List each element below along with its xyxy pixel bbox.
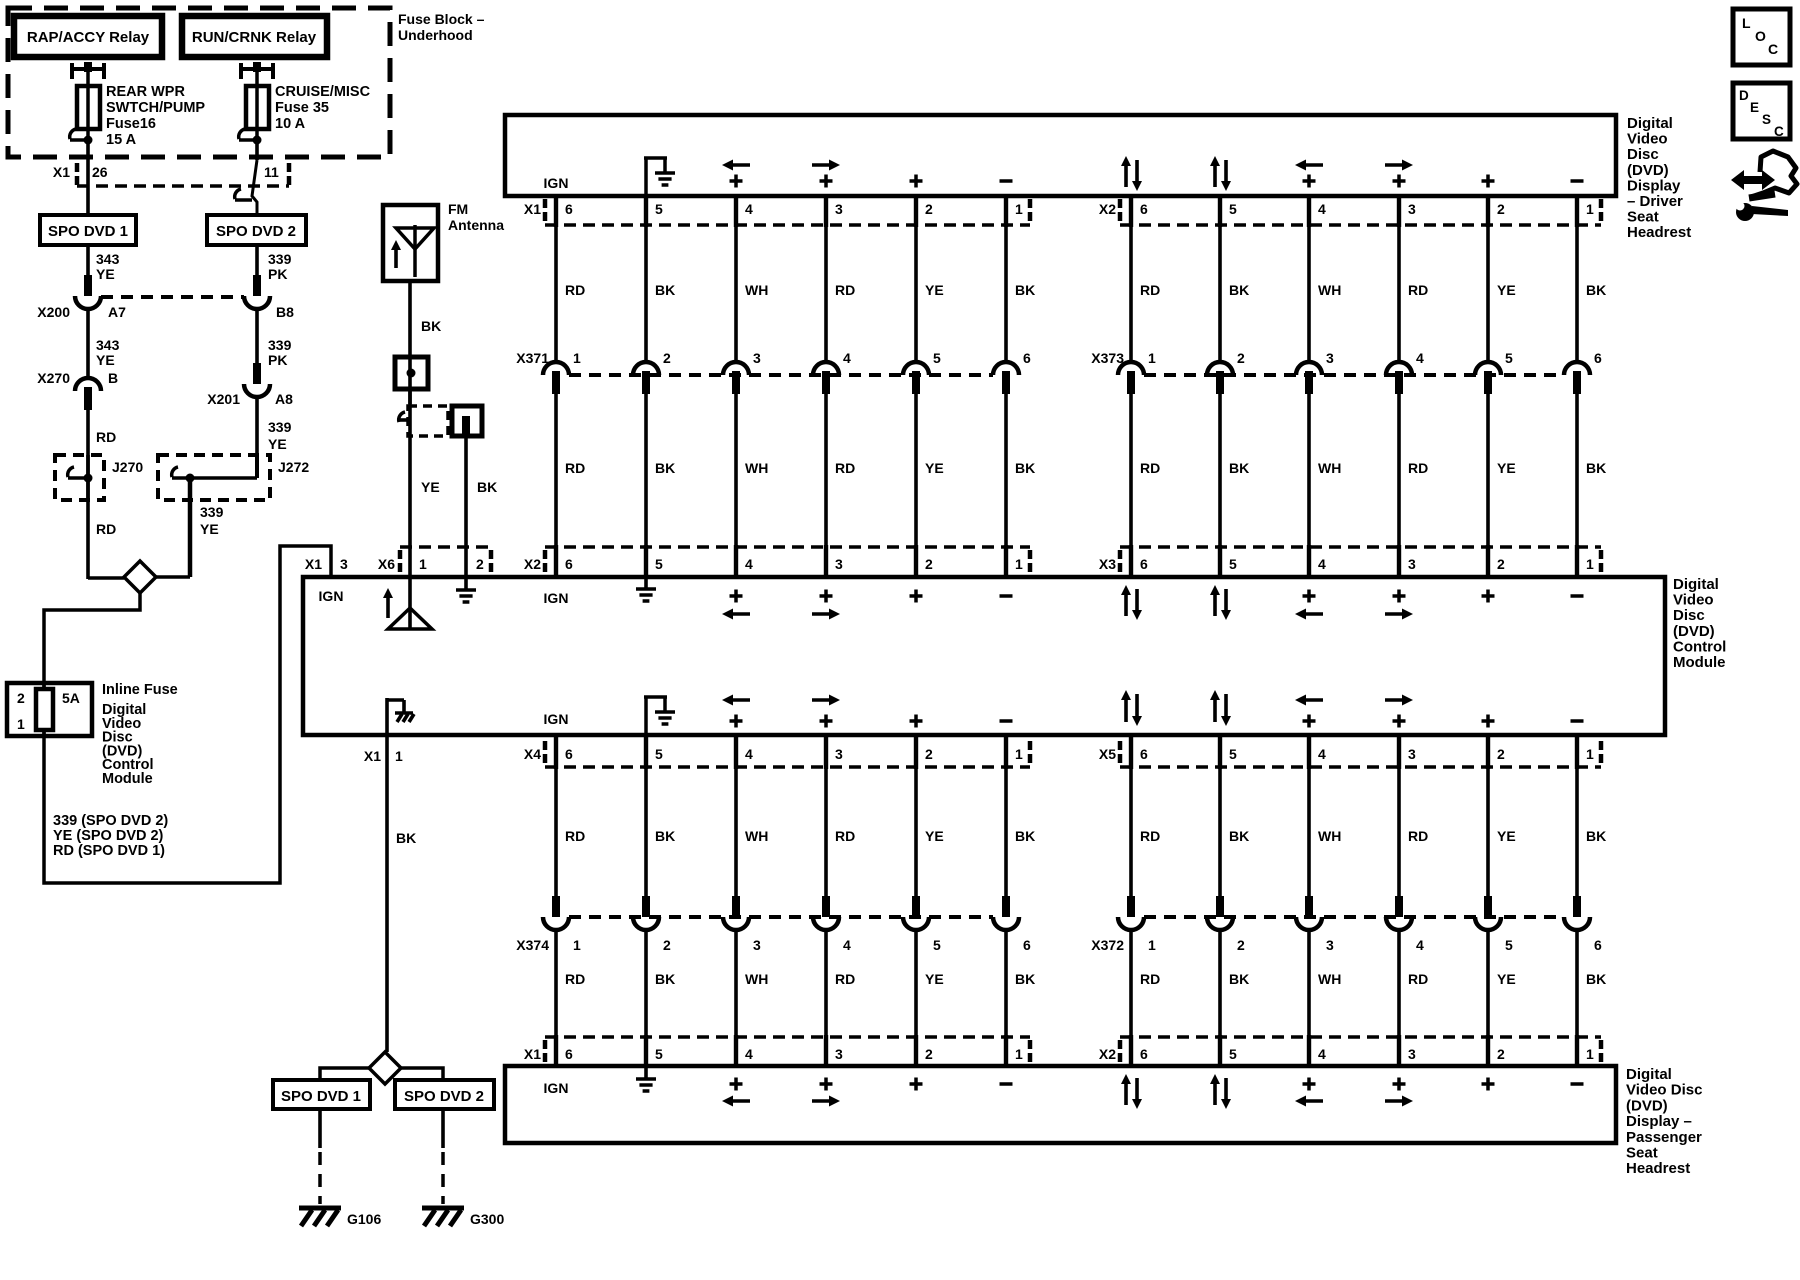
svg-text:S: S xyxy=(1762,112,1771,127)
svg-text:X1: X1 xyxy=(364,748,381,764)
svg-text:RD: RD xyxy=(96,429,116,445)
svg-text:RD: RD xyxy=(96,521,116,537)
svg-text:4: 4 xyxy=(745,201,753,217)
svg-text:6: 6 xyxy=(565,556,573,572)
svg-text:CRUISE/MISC: CRUISE/MISC xyxy=(275,84,371,100)
svg-text:A7: A7 xyxy=(108,304,126,320)
svg-text:3: 3 xyxy=(835,556,843,572)
svg-text:IGN: IGN xyxy=(544,711,569,727)
svg-text:339 (SPO DVD 2): 339 (SPO DVD 2) xyxy=(53,813,168,829)
svg-text:4: 4 xyxy=(843,350,851,366)
svg-text:A8: A8 xyxy=(275,391,293,407)
svg-text:RAP/ACCY Relay: RAP/ACCY Relay xyxy=(27,29,150,46)
svg-text:PK: PK xyxy=(268,352,287,368)
svg-text:Video: Video xyxy=(1627,131,1668,148)
svg-text:Disc: Disc xyxy=(1627,146,1659,163)
svg-text:2: 2 xyxy=(1497,746,1505,762)
svg-text:X1: X1 xyxy=(524,201,541,217)
svg-text:RD: RD xyxy=(565,828,585,844)
svg-text:E: E xyxy=(1750,100,1759,115)
svg-text:5: 5 xyxy=(655,201,663,217)
svg-text:3: 3 xyxy=(340,556,348,572)
svg-text:1: 1 xyxy=(573,937,581,953)
svg-text:6: 6 xyxy=(1140,556,1148,572)
svg-text:5: 5 xyxy=(933,937,941,953)
svg-text:4: 4 xyxy=(1416,937,1424,953)
svg-text:2: 2 xyxy=(1237,350,1245,366)
svg-text:1: 1 xyxy=(573,350,581,366)
svg-text:SPO DVD 2: SPO DVD 2 xyxy=(216,223,296,240)
svg-text:BK: BK xyxy=(655,971,675,987)
svg-text:RD: RD xyxy=(1140,282,1160,298)
svg-text:Passenger: Passenger xyxy=(1626,1129,1702,1146)
svg-text:(DVD): (DVD) xyxy=(1673,623,1715,640)
svg-text:YE: YE xyxy=(925,828,944,844)
svg-text:Headrest: Headrest xyxy=(1627,224,1691,241)
svg-text:Inline Fuse: Inline Fuse xyxy=(102,682,178,698)
svg-text:1: 1 xyxy=(1586,1046,1594,1062)
svg-text:6: 6 xyxy=(565,201,573,217)
svg-text:(DVD): (DVD) xyxy=(1627,162,1669,179)
svg-text:RD: RD xyxy=(1408,460,1428,476)
svg-text:6: 6 xyxy=(1023,937,1031,953)
svg-text:Fuse Block –: Fuse Block – xyxy=(398,11,485,27)
svg-text:WH: WH xyxy=(745,282,768,298)
svg-text:15 A: 15 A xyxy=(106,132,137,148)
svg-text:RD: RD xyxy=(835,828,855,844)
svg-text:2: 2 xyxy=(925,746,933,762)
svg-text:4: 4 xyxy=(843,937,851,953)
svg-text:3: 3 xyxy=(1408,1046,1416,1062)
svg-text:(DVD): (DVD) xyxy=(1626,1097,1668,1114)
svg-text:WH: WH xyxy=(1318,460,1341,476)
svg-text:X1: X1 xyxy=(524,1046,541,1062)
svg-text:B8: B8 xyxy=(276,304,294,320)
svg-text:RD: RD xyxy=(565,282,585,298)
svg-text:3: 3 xyxy=(835,746,843,762)
svg-text:5: 5 xyxy=(1229,746,1237,762)
svg-text:4: 4 xyxy=(1318,201,1326,217)
svg-text:YE: YE xyxy=(268,436,287,452)
svg-text:6: 6 xyxy=(565,746,573,762)
svg-text:4: 4 xyxy=(745,556,753,572)
svg-text:BK: BK xyxy=(396,830,416,846)
svg-text:BK: BK xyxy=(1229,828,1249,844)
svg-text:X373: X373 xyxy=(1091,350,1124,366)
svg-text:SPO DVD 1: SPO DVD 1 xyxy=(48,223,128,240)
svg-text:5: 5 xyxy=(933,350,941,366)
svg-text:3: 3 xyxy=(1326,350,1334,366)
svg-text:4: 4 xyxy=(745,746,753,762)
svg-text:YE: YE xyxy=(96,266,115,282)
svg-text:RD: RD xyxy=(565,460,585,476)
svg-text:5: 5 xyxy=(1229,556,1237,572)
svg-text:3: 3 xyxy=(1408,556,1416,572)
svg-text:FM: FM xyxy=(448,201,468,217)
svg-text:2: 2 xyxy=(663,937,671,953)
svg-text:YE: YE xyxy=(1497,971,1516,987)
svg-text:WH: WH xyxy=(1318,282,1341,298)
svg-text:Headrest: Headrest xyxy=(1626,1160,1690,1177)
svg-text:X1: X1 xyxy=(53,164,70,180)
svg-text:REAR WPR: REAR WPR xyxy=(106,84,185,100)
svg-text:YE: YE xyxy=(1497,282,1516,298)
svg-text:339: 339 xyxy=(200,504,224,520)
svg-text:4: 4 xyxy=(1318,746,1326,762)
svg-text:J272: J272 xyxy=(278,459,309,475)
svg-text:6: 6 xyxy=(1140,746,1148,762)
svg-text:6: 6 xyxy=(1594,937,1602,953)
svg-text:WH: WH xyxy=(745,828,768,844)
svg-text:5: 5 xyxy=(655,1046,663,1062)
svg-text:6: 6 xyxy=(1140,1046,1148,1062)
svg-text:YE: YE xyxy=(925,971,944,987)
svg-text:YE: YE xyxy=(421,479,440,495)
svg-text:IGN: IGN xyxy=(319,588,344,604)
svg-text:2: 2 xyxy=(925,556,933,572)
svg-text:X5: X5 xyxy=(1099,746,1116,762)
svg-text:YE: YE xyxy=(1497,828,1516,844)
svg-text:6: 6 xyxy=(565,1046,573,1062)
svg-text:– Driver: – Driver xyxy=(1627,193,1683,210)
svg-text:BK: BK xyxy=(1586,460,1606,476)
svg-text:Seat: Seat xyxy=(1627,209,1659,226)
svg-text:YE (SPO DVD 2): YE (SPO DVD 2) xyxy=(53,828,164,844)
svg-text:1: 1 xyxy=(1148,350,1156,366)
svg-text:X2: X2 xyxy=(1099,201,1116,217)
svg-text:RD: RD xyxy=(1140,460,1160,476)
svg-text:BK: BK xyxy=(655,460,675,476)
svg-text:X200: X200 xyxy=(37,304,70,320)
svg-text:X1: X1 xyxy=(305,556,322,572)
svg-text:YE: YE xyxy=(96,352,115,368)
svg-text:5: 5 xyxy=(1505,350,1513,366)
svg-text:Display –: Display – xyxy=(1626,1113,1692,1130)
svg-text:5: 5 xyxy=(655,556,663,572)
svg-text:339: 339 xyxy=(268,251,292,267)
svg-text:X270: X270 xyxy=(37,370,70,386)
svg-text:Display: Display xyxy=(1627,177,1681,194)
svg-text:Fuse 35: Fuse 35 xyxy=(275,100,329,116)
svg-text:X4: X4 xyxy=(524,746,541,762)
svg-text:O: O xyxy=(1755,28,1766,44)
svg-text:1: 1 xyxy=(419,556,427,572)
svg-text:Module: Module xyxy=(102,771,153,787)
svg-text:5: 5 xyxy=(1229,1046,1237,1062)
svg-text:SWTCH/PUMP: SWTCH/PUMP xyxy=(106,100,205,116)
svg-text:2: 2 xyxy=(476,556,484,572)
svg-text:X2: X2 xyxy=(524,556,541,572)
svg-text:PK: PK xyxy=(268,266,287,282)
svg-text:Underhood: Underhood xyxy=(398,27,473,43)
svg-text:RD: RD xyxy=(835,460,855,476)
svg-text:3: 3 xyxy=(753,350,761,366)
svg-text:6: 6 xyxy=(1023,350,1031,366)
svg-text:BK: BK xyxy=(655,282,675,298)
svg-text:1: 1 xyxy=(1586,556,1594,572)
svg-text:YE: YE xyxy=(925,282,944,298)
svg-text:3: 3 xyxy=(835,1046,843,1062)
svg-text:339: 339 xyxy=(268,419,292,435)
svg-text:2: 2 xyxy=(925,201,933,217)
svg-text:3: 3 xyxy=(753,937,761,953)
svg-text:Digital: Digital xyxy=(1626,1066,1672,1083)
svg-text:RD: RD xyxy=(1140,971,1160,987)
svg-text:WH: WH xyxy=(745,460,768,476)
svg-text:10 A: 10 A xyxy=(275,116,306,132)
svg-text:Disc: Disc xyxy=(1673,607,1705,624)
svg-text:2: 2 xyxy=(1497,556,1505,572)
svg-text:4: 4 xyxy=(1416,350,1424,366)
svg-text:YE: YE xyxy=(925,460,944,476)
svg-text:WH: WH xyxy=(1318,828,1341,844)
svg-text:Video Disc: Video Disc xyxy=(1626,1082,1702,1099)
svg-text:X371: X371 xyxy=(516,350,549,366)
svg-text:C: C xyxy=(1768,41,1778,57)
svg-text:RD: RD xyxy=(565,971,585,987)
svg-text:Digital: Digital xyxy=(1673,576,1719,593)
svg-text:Fuse16: Fuse16 xyxy=(106,116,156,132)
svg-text:YE: YE xyxy=(1497,460,1516,476)
svg-text:X374: X374 xyxy=(516,937,549,953)
svg-text:2: 2 xyxy=(1497,1046,1505,1062)
svg-text:5A: 5A xyxy=(62,690,80,706)
svg-text:1: 1 xyxy=(1015,556,1023,572)
svg-text:1: 1 xyxy=(1586,746,1594,762)
svg-text:343: 343 xyxy=(96,251,120,267)
svg-text:RD: RD xyxy=(1408,971,1428,987)
svg-text:Module: Module xyxy=(1673,654,1726,671)
svg-text:RUN/CRNK Relay: RUN/CRNK Relay xyxy=(192,29,317,46)
svg-text:X201: X201 xyxy=(207,391,240,407)
svg-text:6: 6 xyxy=(1140,201,1148,217)
svg-text:BK: BK xyxy=(1586,282,1606,298)
svg-text:1: 1 xyxy=(1015,746,1023,762)
svg-text:343: 343 xyxy=(96,337,120,353)
svg-text:2: 2 xyxy=(1237,937,1245,953)
svg-text:RD (SPO DVD 1): RD (SPO DVD 1) xyxy=(53,843,165,859)
svg-text:BK: BK xyxy=(1015,460,1035,476)
svg-text:RD: RD xyxy=(835,971,855,987)
svg-text:WH: WH xyxy=(1318,971,1341,987)
svg-text:5: 5 xyxy=(1229,201,1237,217)
svg-text:BK: BK xyxy=(1586,971,1606,987)
svg-text:RD: RD xyxy=(1408,828,1428,844)
svg-text:BK: BK xyxy=(1586,828,1606,844)
svg-text:1: 1 xyxy=(1586,201,1594,217)
svg-text:3: 3 xyxy=(1408,201,1416,217)
svg-text:X2: X2 xyxy=(1099,1046,1116,1062)
svg-text:11: 11 xyxy=(264,164,279,180)
svg-text:Video: Video xyxy=(1673,592,1714,609)
svg-text:3: 3 xyxy=(835,201,843,217)
svg-text:1: 1 xyxy=(395,748,403,764)
svg-text:2: 2 xyxy=(17,690,25,706)
svg-text:SPO DVD 2: SPO DVD 2 xyxy=(404,1088,484,1105)
svg-text:RD: RD xyxy=(1140,828,1160,844)
svg-text:BK: BK xyxy=(421,318,441,334)
svg-text:Antenna: Antenna xyxy=(448,217,504,233)
svg-text:1: 1 xyxy=(17,716,25,732)
svg-text:RD: RD xyxy=(1408,282,1428,298)
svg-text:2: 2 xyxy=(925,1046,933,1062)
svg-text:BK: BK xyxy=(1229,460,1249,476)
svg-text:BK: BK xyxy=(1229,971,1249,987)
svg-text:SPO DVD 1: SPO DVD 1 xyxy=(281,1088,361,1105)
svg-text:2: 2 xyxy=(1497,201,1505,217)
svg-text:5: 5 xyxy=(1505,937,1513,953)
svg-text:J270: J270 xyxy=(112,459,143,475)
svg-text:G300: G300 xyxy=(470,1211,504,1227)
svg-text:4: 4 xyxy=(1318,1046,1326,1062)
svg-text:IGN: IGN xyxy=(544,1080,569,1096)
svg-text:3: 3 xyxy=(1408,746,1416,762)
svg-text:X372: X372 xyxy=(1091,937,1124,953)
svg-text:4: 4 xyxy=(1318,556,1326,572)
svg-text:Seat: Seat xyxy=(1626,1145,1658,1162)
svg-text:BK: BK xyxy=(1229,282,1249,298)
svg-text:1: 1 xyxy=(1015,201,1023,217)
svg-text:339: 339 xyxy=(268,337,292,353)
svg-text:4: 4 xyxy=(745,1046,753,1062)
svg-text:5: 5 xyxy=(655,746,663,762)
svg-text:26: 26 xyxy=(92,164,108,180)
svg-text:Digital: Digital xyxy=(1627,115,1673,132)
svg-text:B: B xyxy=(108,370,118,386)
svg-text:Control: Control xyxy=(1673,638,1726,655)
svg-text:1: 1 xyxy=(1148,937,1156,953)
svg-text:D: D xyxy=(1739,88,1749,103)
svg-text:G106: G106 xyxy=(347,1211,381,1227)
svg-text:BK: BK xyxy=(1015,828,1035,844)
svg-text:X6: X6 xyxy=(378,556,395,572)
svg-text:X3: X3 xyxy=(1099,556,1116,572)
svg-text:BK: BK xyxy=(1015,971,1035,987)
svg-text:C: C xyxy=(1774,124,1784,139)
svg-text:2: 2 xyxy=(663,350,671,366)
svg-text:3: 3 xyxy=(1326,937,1334,953)
svg-text:RD: RD xyxy=(835,282,855,298)
svg-text:6: 6 xyxy=(1594,350,1602,366)
svg-text:WH: WH xyxy=(745,971,768,987)
svg-text:BK: BK xyxy=(1015,282,1035,298)
svg-text:BK: BK xyxy=(655,828,675,844)
svg-text:L: L xyxy=(1742,15,1751,31)
svg-text:BK: BK xyxy=(477,479,497,495)
svg-text:IGN: IGN xyxy=(544,175,569,191)
svg-text:IGN: IGN xyxy=(544,590,569,606)
svg-text:YE: YE xyxy=(200,521,219,537)
svg-text:1: 1 xyxy=(1015,1046,1023,1062)
